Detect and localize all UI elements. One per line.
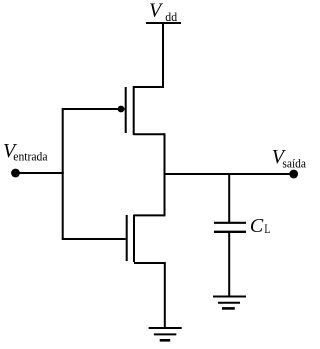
- label CL: [250, 215, 271, 237]
- wire output: [165, 173, 294, 175]
- wire PMOS gate: [63, 108, 125, 110]
- wire capacitor to ground: [228, 233, 230, 296]
- wire drain junction vertical: [164, 133, 166, 216]
- node input terminal dot: [11, 169, 20, 178]
- wire NMOS gate: [63, 238, 126, 240]
- label Ventrada: [3, 140, 48, 163]
- svg-text:V: V: [149, 0, 164, 22]
- PMOS gate bubble dot: [118, 106, 125, 113]
- transistor M1 (PMOS) gate bar: [125, 87, 127, 133]
- wire NMOS source to ground: [164, 262, 166, 328]
- wire input: [16, 172, 64, 174]
- Vdd rail: [146, 22, 181, 24]
- svg-text:dd: dd: [165, 10, 178, 24]
- label Vdd: [149, 0, 178, 24]
- svg-text:saída: saída: [282, 157, 306, 171]
- wire Vdd to PMOS source: [134, 23, 163, 87]
- wire NMOS source: [134, 262, 165, 264]
- capacitor CL top plate: [214, 222, 246, 224]
- wire NMOS drain: [134, 214, 165, 216]
- ground (capacitor): [213, 297, 246, 309]
- transistor M2 (NMOS) gate bar: [126, 215, 128, 261]
- transistor M2 (NMOS) channel bar: [133, 215, 135, 262]
- capacitor CL bottom plate: [214, 231, 246, 233]
- transistor M1 (PMOS) channel bar: [133, 86, 135, 135]
- svg-text:L: L: [264, 222, 270, 236]
- label Vsaida: [272, 146, 307, 171]
- wire gate bus: [62, 108, 64, 240]
- svg-text:C: C: [250, 215, 264, 237]
- wire output to capacitor: [228, 174, 230, 222]
- wire PMOS drain: [134, 133, 165, 135]
- node output terminal dot: [289, 170, 298, 179]
- svg-text:entrada: entrada: [13, 149, 48, 163]
- ground (NMOS source): [149, 328, 182, 340]
